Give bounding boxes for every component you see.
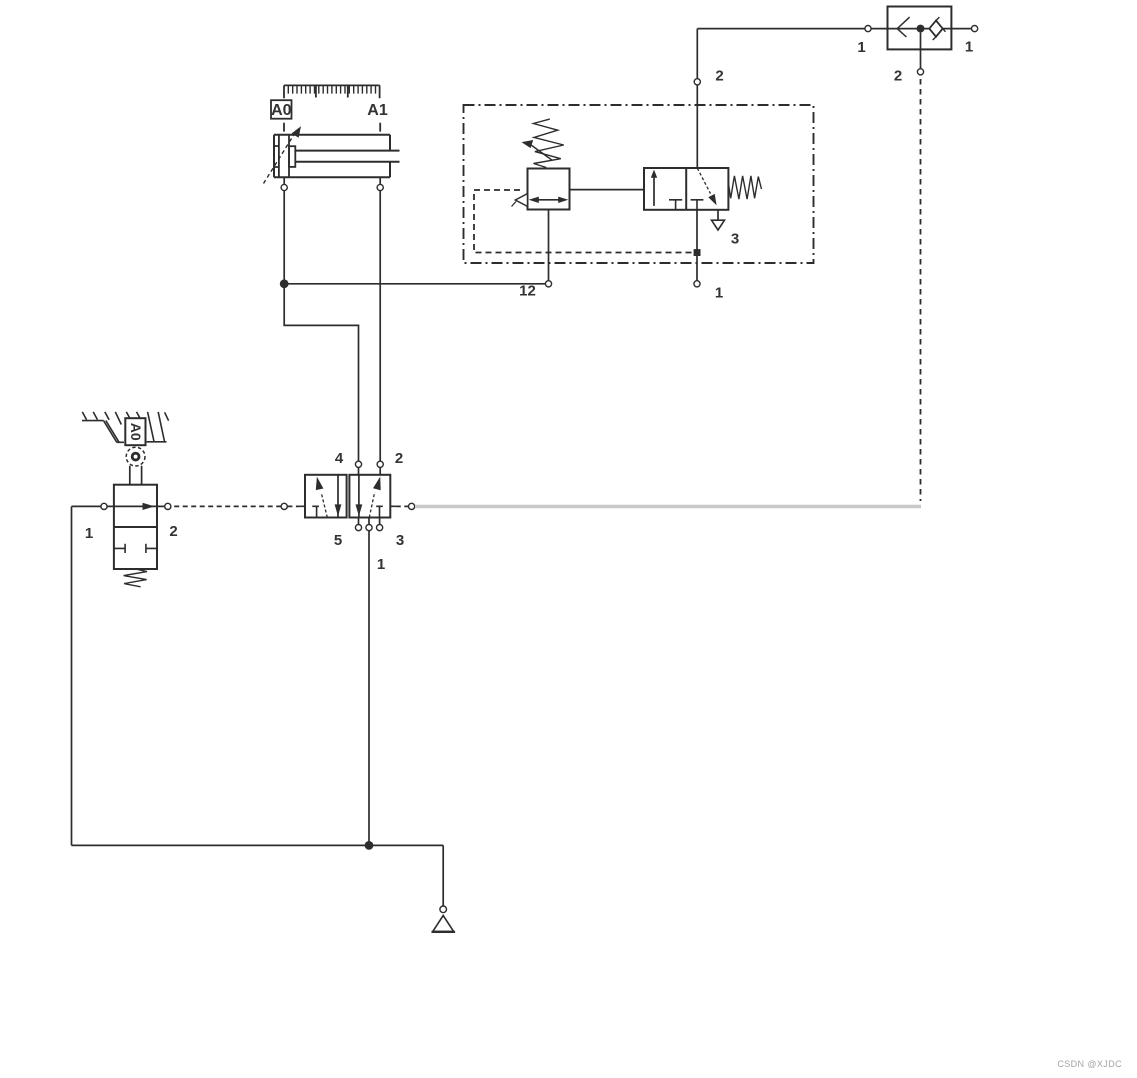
5/2 left chamber diagonal arrow	[316, 477, 328, 518]
svg-text:1: 1	[857, 39, 865, 56]
label box A0 (ruler)	[271, 100, 292, 119]
5/2 right chamber diagonal arrow (1 to 2)	[369, 477, 380, 518]
cushion adjust arrow	[264, 126, 302, 183]
wire: cylinder right port down to valve port 2	[379, 191, 381, 462]
roller limit valve 3/2 body	[114, 485, 157, 569]
valve port 2 circle	[917, 69, 923, 75]
svg-text:1: 1	[965, 39, 973, 56]
pilot link pressure valve to 3/2 valve	[570, 189, 645, 191]
5/2 left chamber blocked port T	[312, 506, 319, 517]
3/2 left chamber blocked T	[669, 200, 682, 210]
one-way flow control valve body	[888, 7, 952, 50]
roller valve port 2 circle	[165, 503, 171, 509]
5/2 pilot stubs	[300, 505, 396, 507]
svg-text:2: 2	[715, 67, 723, 84]
roller of limit valve	[126, 447, 145, 466]
cylinder port circle left	[281, 184, 287, 190]
5/2 port 4 circle	[355, 461, 361, 467]
5/2 port 1 circle	[366, 525, 372, 531]
port 12 circle	[545, 281, 551, 287]
svg-text:5: 5	[334, 532, 342, 549]
pressure valve square body	[528, 169, 570, 210]
check chevron	[897, 17, 909, 37]
dash-dot enclosure (timer assembly)	[464, 105, 814, 263]
3/2 right chamber blocked T	[691, 200, 704, 210]
wire: 3/2 port 1 down	[696, 210, 698, 281]
highlighted (gray) pilot line to right	[415, 505, 921, 508]
3/2 return spring	[728, 176, 761, 199]
5/2 pilot port circle left	[281, 503, 287, 509]
5/2 bottom port stubs	[359, 518, 380, 525]
roller valve port 1 circle	[101, 503, 107, 509]
3/2 valve body (in enclosure)	[644, 168, 728, 210]
svg-text:A0: A0	[271, 102, 292, 119]
5/2 pilot port circle right	[409, 503, 415, 509]
3/2 exhaust stub and triangle port 3	[717, 210, 719, 220]
wire: junction to port 12	[284, 283, 545, 285]
5/2 right chamber blocked port T	[376, 506, 383, 517]
supply port circle	[440, 906, 447, 913]
junction node bottom manifold	[365, 841, 374, 850]
svg-text:4: 4	[335, 450, 344, 467]
roller valve flow path arrow (1 to 2)	[107, 503, 165, 510]
cylinder port stub right	[379, 177, 381, 184]
pilot dash right of circle	[287, 505, 299, 507]
wire: 5/2 port 1 down to bottom manifold	[368, 531, 370, 846]
pilot dashes 5/2 right side	[396, 505, 409, 507]
roller stem	[130, 466, 142, 485]
svg-text:2: 2	[395, 450, 403, 467]
5/2 right chamber down arrow (4 to 5)	[356, 475, 363, 518]
cylinder 1A double-acting body	[274, 135, 390, 178]
port 2 circle (enclosure top)	[694, 79, 700, 85]
wire: pressure valve to port 12	[548, 210, 550, 281]
wire: cylinder left port down, bend to valve port 4	[284, 191, 358, 462]
junction dot in valve	[917, 25, 925, 33]
svg-text:2: 2	[169, 523, 177, 540]
spring adjust arrow	[522, 140, 553, 161]
cylinder piston rod	[295, 151, 399, 162]
svg-text:1: 1	[85, 525, 93, 542]
cylinder port stub left	[283, 177, 285, 184]
svg-text:1: 1	[715, 285, 723, 302]
pilot line from roller valve to 5/2 (dashed)	[174, 505, 281, 507]
pressure valve vent triangle	[515, 194, 527, 207]
through line	[871, 28, 971, 30]
5/2 port 3 circle	[377, 525, 383, 531]
svg-text:3: 3	[396, 532, 404, 549]
5/2-way valve body	[305, 475, 390, 518]
check ball diamond	[929, 21, 942, 37]
svg-text:A1: A1	[367, 102, 388, 119]
wire: roller valve port 1 to bottom manifold	[72, 506, 101, 845]
svg-text:2: 2	[894, 68, 902, 85]
internal pilot dashed path	[474, 190, 693, 253]
supply source triangle	[433, 916, 454, 932]
valve port 2 drop line	[920, 33, 922, 69]
3/2 left chamber up arrow	[651, 170, 657, 206]
dashed pilot riser right side	[920, 79, 922, 501]
valve port 1 circle left	[865, 26, 871, 32]
5/2 left chamber down arrow	[335, 475, 342, 518]
label box A0 (roller valve)	[125, 418, 145, 445]
distance ruler A0-A1	[284, 85, 380, 98]
wire: 3/2 port 2 up to check valve	[697, 29, 865, 168]
5/2 port 5 circle	[355, 525, 361, 531]
3/2 diagonal arrow (2 to 3)	[697, 168, 716, 205]
svg-text:1: 1	[377, 556, 385, 573]
wire: bottom manifold	[72, 845, 444, 906]
cylinder cushioning block	[289, 146, 295, 167]
svg-text:3: 3	[731, 231, 739, 248]
valve port 1 circle right	[972, 26, 978, 32]
svg-text:CSDN @XJDC: CSDN @XJDC	[1057, 1059, 1122, 1069]
svg-text:A0: A0	[128, 423, 144, 441]
5/2 top port stubs	[359, 467, 381, 474]
ruler marker dashes	[284, 123, 380, 132]
pressure valve setting spring	[534, 119, 564, 167]
cam wall hatching (A0 trip cam)	[82, 412, 169, 442]
port 1 circle (enclosure)	[694, 281, 700, 287]
svg-text:12: 12	[519, 283, 536, 300]
junction node on left wire	[280, 279, 289, 288]
junction square on sensing line	[694, 249, 701, 256]
roller valve blocked ports (bottom chamber)	[114, 544, 157, 553]
roller valve return spring	[124, 569, 147, 587]
pressure valve double arrow	[529, 197, 569, 203]
cylinder port circle right	[377, 184, 383, 190]
5/2 port 2 circle	[377, 461, 383, 467]
